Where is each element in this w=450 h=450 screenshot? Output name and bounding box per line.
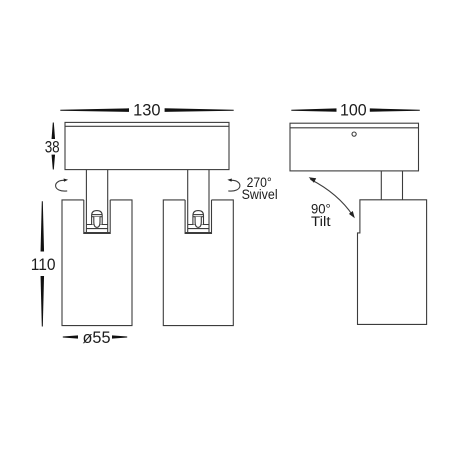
svg-text:38: 38 (45, 138, 60, 156)
dim 130 wedge left (60, 108, 129, 112)
svg-text:110: 110 (31, 256, 56, 274)
head 1 knob collar (92, 214, 103, 216)
lamp head 1 outline with slot (62, 200, 132, 326)
dim 100 wedge left (291, 108, 336, 111)
tilt arc (310, 179, 353, 215)
dim dia55 wedge right (112, 335, 127, 338)
lamp head 2 outline with slot (163, 200, 233, 326)
dim 38 wedge bottom (52, 155, 56, 170)
mounting plate front view (65, 122, 229, 169)
svg-text:100: 100 (340, 102, 367, 120)
head 1 knob dome (92, 211, 103, 225)
dim 130 wedge right (165, 108, 234, 112)
svg-text:ø55: ø55 (82, 329, 110, 347)
svg-text:130: 130 (133, 101, 160, 119)
dim 110 wedge bottom (41, 276, 45, 327)
head 2 slot bottom thick line (185, 232, 211, 234)
right arm front view (187, 170, 189, 200)
head 2 slot inner wall lines (187, 200, 189, 234)
stem side view (380, 171, 382, 200)
head 2 slot walls (185, 200, 211, 234)
mounting plate side view (290, 123, 419, 171)
head 1 slot inner wall lines (85, 200, 87, 234)
tilt arc arrowhead top (309, 177, 317, 183)
plate front top strip line (65, 125, 229, 127)
dim 100 wedge right (370, 108, 420, 111)
swivel arrow left (56, 180, 68, 191)
dim dia55 wedge left (63, 335, 78, 338)
head 1 slot walls (84, 200, 110, 234)
head 2 knob dome (193, 211, 204, 225)
head 2 knob inner barrel (195, 217, 201, 228)
head 1 slot bottom thick line (84, 232, 110, 234)
tilt arc arrowhead bottom (349, 211, 355, 218)
head 1 knob inner barrel (94, 217, 100, 228)
dim 110 wedge top (41, 201, 45, 251)
left arm front view (85, 170, 87, 200)
svg-text:Swivel: Swivel (242, 187, 278, 203)
plate side screw (352, 132, 356, 136)
lamp head side view (358, 200, 427, 325)
head 2 knob collar (193, 214, 204, 216)
swivel arrow right (228, 180, 240, 191)
head 2 bracket band lines (188, 224, 209, 226)
svg-text:Tilt: Tilt (311, 214, 331, 230)
plate side top strip line (290, 127, 419, 129)
head 1 bracket band lines (86, 224, 107, 226)
dim 38 wedge top (52, 123, 56, 140)
